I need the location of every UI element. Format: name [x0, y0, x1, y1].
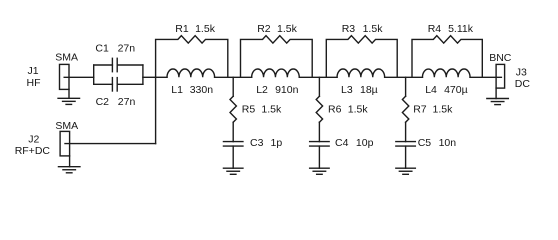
capacitor C4: [310, 142, 330, 147]
wire L4 to J3: [470, 76, 501, 78]
svg-text:R4: R4: [428, 23, 442, 35]
wire riser J2 to node A: [155, 77, 157, 143]
connector J2 SMA body: [60, 131, 70, 156]
svg-text:1.5k: 1.5k: [261, 103, 282, 115]
wire J2 pin toward node A: [65, 143, 156, 145]
svg-text:L4: L4: [425, 84, 437, 96]
wire input bus of C1/C2: [93, 65, 95, 84]
svg-text:J2: J2: [28, 134, 39, 146]
inductor L1: [167, 69, 215, 77]
wire C3 to ground: [232, 146, 234, 168]
wire L1 to L2 (node B): [215, 76, 252, 78]
wire shunt drop to R5: [232, 77, 234, 96]
resistor R1 (parallel branch): [156, 36, 228, 78]
resistor R7: [402, 96, 408, 122]
inductor L3: [337, 69, 385, 77]
svg-text:C1: C1: [95, 43, 109, 55]
svg-text:10n: 10n: [439, 137, 457, 149]
wire node A to L1: [156, 76, 167, 78]
svg-text:910n: 910n: [275, 84, 299, 96]
svg-text:18µ: 18µ: [360, 84, 378, 96]
svg-text:C4: C4: [335, 137, 349, 149]
capacitor C5: [396, 142, 416, 147]
svg-text:R5: R5: [242, 103, 256, 115]
svg-text:5.11k: 5.11k: [448, 23, 474, 35]
svg-text:R1: R1: [175, 23, 189, 35]
wire shunt drop to R7: [405, 77, 407, 96]
capacitor C3: [223, 142, 243, 147]
wire C4 to ground: [318, 146, 320, 168]
resistor R2 (parallel branch): [241, 36, 313, 78]
wire output bus of C1/C2: [142, 65, 144, 84]
svg-text:SMA: SMA: [55, 52, 78, 64]
inductor L4: [422, 69, 470, 77]
ground at J1: [68, 89, 70, 98]
svg-text:DC: DC: [515, 78, 531, 90]
ground at C5: [396, 168, 416, 174]
svg-text:C3: C3: [250, 137, 264, 149]
svg-text:HF: HF: [27, 77, 41, 89]
connector J1 SMA body: [60, 64, 70, 89]
svg-text:10p: 10p: [356, 137, 374, 149]
svg-text:1.5k: 1.5k: [363, 23, 384, 35]
ground at C3: [223, 168, 243, 174]
resistor R5: [230, 96, 236, 122]
wire R5 to C3: [232, 122, 234, 141]
wire R6 to C4: [318, 122, 320, 141]
svg-text:27n: 27n: [118, 43, 136, 55]
svg-text:J1: J1: [28, 65, 39, 77]
capacitor C1: [112, 58, 117, 71]
ground bars at J1: [58, 98, 80, 104]
wire R7 to C5: [405, 122, 407, 141]
resistor R3 (parallel branch): [326, 36, 397, 78]
svg-text:L2: L2: [256, 84, 268, 96]
wire to C2 left plate: [94, 83, 113, 85]
ground bars at J2: [58, 167, 79, 173]
svg-text:R2: R2: [257, 23, 271, 35]
resistor R4 (parallel branch): [412, 36, 482, 78]
svg-text:BNC: BNC: [489, 52, 512, 64]
capacitor C2: [112, 78, 117, 91]
svg-text:C5: C5: [418, 137, 432, 149]
resistor R6: [316, 96, 322, 122]
svg-text:L1: L1: [171, 84, 183, 96]
wire L2 to L3 (node C): [299, 76, 337, 78]
ground at J3: [495, 88, 497, 98]
wire from C2 right plate: [117, 83, 143, 85]
svg-text:L3: L3: [341, 84, 353, 96]
svg-text:J3: J3: [516, 66, 527, 78]
svg-text:1.5k: 1.5k: [277, 23, 298, 35]
svg-text:1.5k: 1.5k: [348, 103, 369, 115]
wire from C1 right plate: [117, 64, 143, 66]
connector J3 BNC body: [496, 64, 505, 88]
wire to C1 left plate: [94, 64, 113, 66]
ground at J2: [69, 156, 71, 167]
svg-text:470µ: 470µ: [444, 84, 468, 96]
wire shunt drop to R6: [318, 77, 320, 96]
svg-text:SMA: SMA: [55, 120, 78, 132]
svg-text:330n: 330n: [190, 84, 214, 96]
svg-text:C2: C2: [96, 96, 110, 108]
svg-text:27n: 27n: [118, 96, 136, 108]
svg-text:1.5k: 1.5k: [195, 23, 216, 35]
ground bars at J3: [487, 99, 509, 105]
wire J1 pin to C1/C2 input: [64, 76, 94, 78]
svg-text:RF+DC: RF+DC: [15, 145, 51, 157]
svg-text:R3: R3: [342, 23, 356, 35]
ground at C4: [310, 168, 330, 174]
wire C bus to node A: [143, 76, 156, 78]
svg-text:1p: 1p: [271, 137, 283, 149]
svg-text:1.5k: 1.5k: [433, 103, 454, 115]
wire C5 to ground: [405, 146, 407, 168]
inductor L2: [252, 69, 300, 77]
svg-text:R7: R7: [413, 103, 427, 115]
wire L3 to L4 (node D): [385, 76, 423, 78]
svg-text:R6: R6: [328, 103, 342, 115]
